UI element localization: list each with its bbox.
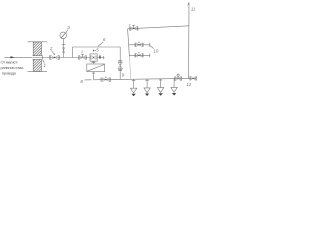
svg-text:рального газо-: рального газо- (1, 65, 25, 70)
svg-text:11: 11 (191, 6, 196, 11)
svg-text:5: 5 (96, 48, 99, 53)
svg-text:4: 4 (81, 50, 83, 54)
svg-text:1: 1 (44, 63, 46, 68)
svg-text:3: 3 (67, 25, 70, 31)
svg-text:10: 10 (153, 48, 158, 53)
svg-text:6: 6 (103, 37, 106, 42)
svg-text:12: 12 (186, 82, 191, 87)
svg-text:2: 2 (49, 46, 53, 51)
svg-text:9: 9 (122, 73, 125, 78)
svg-text:провода: провода (2, 70, 17, 75)
svg-text:8: 8 (80, 79, 83, 84)
svg-text:От магист-: От магист- (1, 59, 19, 64)
